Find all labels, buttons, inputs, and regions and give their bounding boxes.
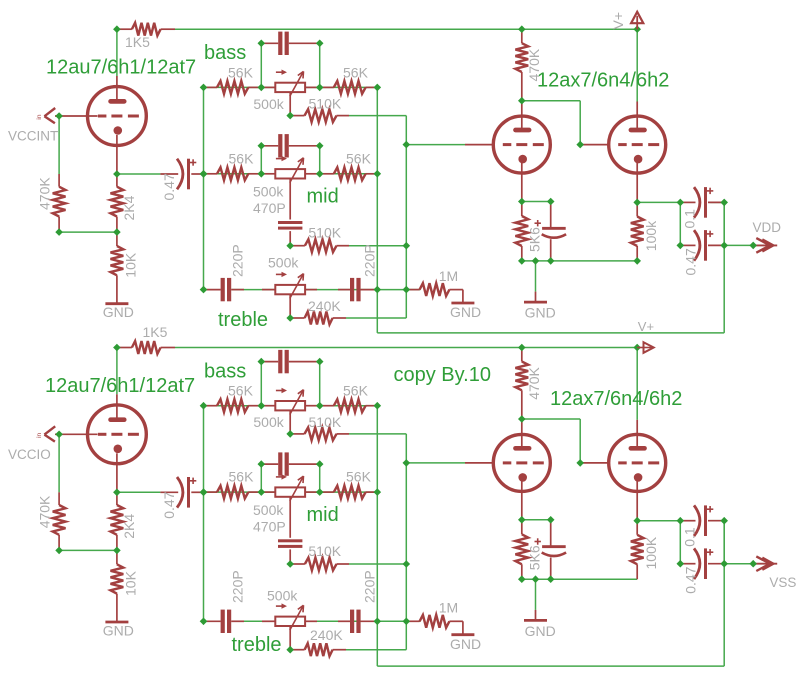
svg-text:100k: 100k [643, 220, 659, 251]
svg-text:in: in [36, 114, 43, 119]
svg-text:470P: 470P [253, 200, 286, 216]
svg-text:GND: GND [103, 623, 134, 639]
svg-text:510K: 510K [308, 225, 341, 241]
svg-text:0.1: 0.1 [682, 527, 698, 547]
svg-text:10K: 10K [123, 252, 139, 278]
svg-text:copy By.10: copy By.10 [394, 364, 491, 386]
svg-text:bass: bass [204, 42, 246, 64]
svg-text:100K: 100K [643, 536, 659, 569]
svg-text:5K6: 5K6 [527, 545, 543, 570]
svg-text:GND: GND [525, 623, 556, 639]
svg-text:1K5: 1K5 [125, 34, 150, 50]
svg-text:500k: 500k [253, 184, 284, 200]
svg-text:220P: 220P [230, 244, 246, 277]
svg-text:treble: treble [218, 309, 268, 331]
svg-text:470K: 470K [36, 495, 52, 528]
svg-text:mid: mid [307, 186, 339, 208]
svg-text:GND: GND [450, 304, 481, 320]
svg-text:500k: 500k [268, 255, 299, 271]
svg-text:510K: 510K [309, 96, 342, 112]
svg-text:0.47: 0.47 [161, 173, 177, 200]
svg-text:12ax7/6n4/6h2: 12ax7/6n4/6h2 [537, 70, 669, 92]
svg-text:510K: 510K [309, 414, 342, 430]
svg-text:VCCINT: VCCINT [8, 129, 58, 144]
svg-text:GND: GND [525, 305, 556, 321]
svg-text:56K: 56K [229, 469, 255, 485]
svg-text:2K4: 2K4 [121, 514, 137, 539]
svg-text:500k: 500k [253, 414, 284, 430]
svg-text:220P: 220P [362, 244, 378, 277]
svg-text:GND: GND [450, 636, 481, 652]
svg-text:56K: 56K [346, 469, 372, 485]
svg-text:0.1: 0.1 [682, 209, 698, 229]
svg-text:GND: GND [103, 304, 134, 320]
svg-text:bass: bass [204, 360, 246, 382]
svg-text:1M: 1M [439, 600, 458, 616]
svg-text:500k: 500k [267, 587, 298, 603]
svg-text:510K: 510K [308, 543, 341, 559]
svg-text:5K6: 5K6 [527, 227, 543, 252]
svg-text:220P: 220P [230, 570, 246, 603]
svg-text:10K: 10K [123, 570, 139, 596]
svg-text:in: in [36, 432, 43, 437]
svg-text:12ax7/6n4/6h2: 12ax7/6n4/6h2 [550, 388, 682, 410]
svg-text:2K4: 2K4 [121, 195, 137, 220]
svg-text:220P: 220P [362, 570, 378, 603]
svg-text:0.47: 0.47 [161, 491, 177, 518]
svg-text:12au7/6h1/12at7: 12au7/6h1/12at7 [46, 57, 196, 79]
svg-text:treble: treble [232, 634, 282, 656]
svg-text:56K: 56K [228, 383, 254, 399]
svg-text:470P: 470P [253, 518, 286, 534]
svg-text:0.47: 0.47 [683, 248, 699, 275]
svg-text:470K: 470K [526, 366, 542, 399]
svg-text:470K: 470K [36, 177, 52, 210]
svg-text:V+: V+ [638, 319, 654, 334]
svg-text:1K5: 1K5 [143, 324, 168, 340]
svg-text:mid: mid [307, 504, 339, 526]
svg-text:500k: 500k [253, 502, 284, 518]
svg-text:240K: 240K [310, 627, 343, 643]
svg-text:0.47: 0.47 [683, 566, 699, 593]
svg-text:V+: V+ [610, 12, 626, 30]
svg-text:56K: 56K [229, 150, 255, 166]
svg-text:VSS: VSS [769, 575, 796, 590]
svg-text:VCCIO: VCCIO [8, 447, 51, 462]
svg-text:1M: 1M [439, 268, 458, 284]
svg-text:500k: 500k [253, 96, 284, 112]
svg-text:56K: 56K [346, 150, 372, 166]
svg-text:56K: 56K [228, 64, 254, 80]
svg-text:VDD: VDD [753, 220, 782, 235]
svg-text:56K: 56K [343, 383, 369, 399]
svg-text:240K: 240K [308, 298, 341, 314]
svg-text:56K: 56K [343, 64, 369, 80]
svg-text:12au7/6h1/12at7: 12au7/6h1/12at7 [45, 375, 195, 397]
